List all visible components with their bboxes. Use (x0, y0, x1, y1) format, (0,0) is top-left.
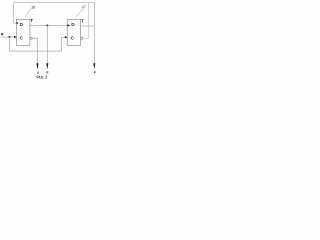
wire: Q1 to D2 (30, 24, 67, 26)
flip-flop FF2 box (67, 19, 80, 45)
arrowhead C input FF2 (65, 36, 68, 38)
wire: Q1bar to phase 1 drop (32, 38, 37, 66)
junction dot Q1 (46, 24, 48, 26)
wire: Q2 to right riser (81, 25, 94, 27)
wire: right riser / output drop (93, 3, 95, 67)
arrowhead D input FF2 (67, 24, 70, 26)
arrowhead C input FF1 (14, 36, 17, 38)
svg-text:φ: φ (46, 70, 48, 74)
bubble Q1bar (30, 37, 32, 39)
svg-text:T: T (30, 18, 33, 23)
leader line to numeral 17 (76, 8, 85, 17)
arrowhead output phase 1 (37, 63, 39, 68)
svg-text:D: D (71, 22, 75, 27)
svg-text:Фиг. 3: Фиг. 3 (36, 74, 48, 79)
leader line to numeral 16 (25, 9, 31, 17)
arrowhead output right (93, 63, 95, 68)
arrowhead output phase 2 (46, 63, 48, 68)
flip-flop FF1 box (16, 19, 30, 45)
wire: clock feed to FF2 (9, 37, 65, 51)
svg-text:φ: φ (94, 70, 96, 74)
wire: left D input (14, 22, 17, 24)
svg-text:17: 17 (82, 5, 86, 9)
svg-text:C: C (71, 36, 75, 41)
wire: Q2bar feedback riser (83, 3, 89, 39)
wire: clock input (1, 36, 17, 38)
svg-text:T: T (81, 18, 84, 23)
svg-text:16: 16 (31, 6, 35, 10)
arrowhead D input FF1 (16, 22, 18, 24)
wire: output phase 2 drop (46, 25, 48, 66)
junction dot clock (8, 36, 10, 38)
input terminal square (1, 33, 3, 35)
svg-text:D: D (20, 22, 24, 27)
wire: top feedback bus (14, 3, 95, 24)
bubble Q2bar (81, 37, 83, 39)
svg-text:C: C (20, 36, 24, 41)
